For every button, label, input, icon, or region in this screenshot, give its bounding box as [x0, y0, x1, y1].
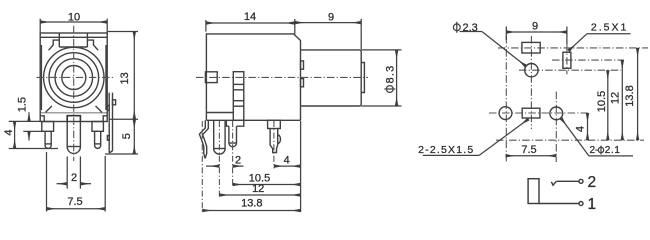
circle 2	[49, 53, 99, 103]
contact strip stack	[233, 72, 244, 121]
right small slot 2.5x1	[563, 52, 571, 68]
svg-text:4: 4	[3, 130, 15, 136]
dimension 10.5 (layout)	[607, 70, 609, 140]
hook tab pin (side)	[199, 120, 208, 158]
pin centerlines (side)	[202, 121, 274, 213]
barrel	[301, 50, 362, 106]
dimension 10.5 (side bottom)	[233, 184, 301, 186]
inner wall right	[105, 45, 107, 110]
dimension 10 (top)	[40, 19, 107, 33]
svg-text:2: 2	[588, 174, 597, 191]
svg-text:2: 2	[235, 155, 241, 167]
svg-text:1: 1	[588, 196, 597, 213]
svg-text:2.1: 2.1	[605, 145, 621, 156]
vertical: left column	[505, 36, 507, 162]
outer circle	[44, 47, 104, 107]
dimension 4 (layout)	[587, 113, 589, 140]
svg-text:13.8: 13.8	[241, 198, 262, 210]
top hole phi2.3	[525, 63, 538, 76]
bottom-right diagonal	[96, 106, 102, 112]
svg-text:10: 10	[68, 12, 80, 24]
pin 4 (side)	[268, 120, 281, 152]
dimension 12 (side bottom)	[219, 194, 300, 196]
axis centerline (side)	[196, 76, 368, 78]
horizontal: right slot row	[552, 59, 624, 61]
centerlines	[489, 36, 648, 162]
svg-text:10.5: 10.5	[596, 91, 608, 112]
leader 2.5x1	[569, 34, 631, 51]
schematic symbol (bottom right)	[528, 179, 583, 206]
svg-text:1.5: 1.5	[16, 97, 28, 112]
svg-text:2-2.5X1.5: 2-2.5X1.5	[418, 144, 474, 156]
dimension 2 (side bottom)	[206, 165, 244, 167]
right pin (front)	[92, 122, 103, 149]
dimension 1.5 (left)	[9, 112, 42, 140]
svg-text:7.5: 7.5	[67, 196, 82, 208]
circle 3	[55, 59, 93, 97]
internal shelf line	[206, 112, 233, 114]
vertical centerline	[73, 26, 75, 161]
dimension 5 (right)	[105, 119, 138, 154]
horizontal: datum bottom	[496, 139, 644, 141]
svg-text:9: 9	[532, 21, 538, 33]
svg-text:9: 9	[328, 11, 334, 23]
horizontal: top circle row	[519, 69, 621, 71]
bottom-right hole	[550, 107, 563, 120]
center pin (front)	[67, 116, 80, 122]
dimension 12 (layout)	[621, 60, 623, 140]
dimension 7.5 (front bottom)	[47, 152, 106, 212]
leader 2-phi2.1	[561, 118, 633, 156]
dimension phi 8.3 (barrel)	[361, 50, 401, 106]
bottom-left diagonal	[46, 106, 52, 112]
dimension 9 (side top)	[295, 19, 361, 50]
vertical: middle column	[530, 36, 532, 129]
dimension 4 (left)	[9, 121, 58, 148]
dimension 13 (right)	[108, 32, 138, 120]
inner circle	[62, 66, 86, 90]
left ear step	[49, 40, 60, 50]
dimension 14 (side top)	[206, 19, 295, 35]
svg-text:12: 12	[610, 92, 622, 104]
bottom-left corner step	[40, 116, 44, 122]
horizontal: top pad row	[498, 47, 648, 49]
central raised block	[58, 33, 60, 47]
body outline with top-right chamfer	[206, 34, 300, 120]
pin 3 (side)	[226, 120, 243, 147]
svg-text:13.8: 13.8	[624, 85, 636, 106]
vertical: right slot column	[566, 44, 568, 74]
vertical: right circle column	[555, 92, 557, 162]
dimension 2 (front bottom)	[57, 157, 92, 189]
internal shelf line	[40, 112, 107, 114]
svg-text:14: 14	[244, 11, 256, 23]
svg-text:5: 5	[121, 133, 133, 139]
top slot pad	[522, 42, 540, 53]
svg-text:4: 4	[284, 155, 290, 167]
long pin 2 (side)	[214, 120, 225, 154]
junction bumps on body/barrel seam	[301, 61, 304, 69]
inner wall left	[40, 45, 42, 110]
dimension 13.8 (layout)	[637, 48, 639, 140]
centerlines (front)	[37, 26, 115, 161]
svg-text:2.3: 2.3	[463, 22, 478, 34]
shield box on left edge	[205, 72, 217, 83]
bottom-right corner step	[103, 116, 107, 122]
right ear step	[87, 40, 98, 50]
dimension 4 (side bottom)	[274, 165, 301, 167]
svg-text:7.5: 7.5	[521, 144, 536, 156]
svg-text:2.5X1: 2.5X1	[591, 22, 628, 34]
leader 2-2.5x1.5	[423, 119, 529, 155]
bottom-left hole	[499, 107, 512, 120]
leader phi2.3	[460, 32, 527, 67]
dimension 9 (layout top)	[506, 27, 567, 45]
svg-text:4: 4	[575, 126, 587, 132]
svg-text:2-: 2-	[590, 145, 599, 156]
svg-text:8.3: 8.3	[384, 65, 396, 84]
barrel end hub	[361, 63, 364, 93]
dimension 7.5 (layout)	[506, 155, 557, 157]
body outer square	[40, 33, 107, 122]
left pin (front)	[42, 122, 54, 149]
bottom slot pad	[522, 108, 540, 118]
svg-text:13: 13	[119, 72, 131, 84]
svg-text:12: 12	[252, 183, 264, 195]
dimension 13.8 (side bottom)	[202, 121, 300, 212]
phi symbol of 8.3	[384, 86, 395, 93]
top plate inner line	[40, 36, 107, 38]
horizontal centerline	[37, 76, 115, 78]
horizontal: bottom row	[489, 112, 590, 114]
svg-text:2: 2	[71, 172, 77, 184]
side tab (front view, right edge)	[107, 93, 115, 153]
